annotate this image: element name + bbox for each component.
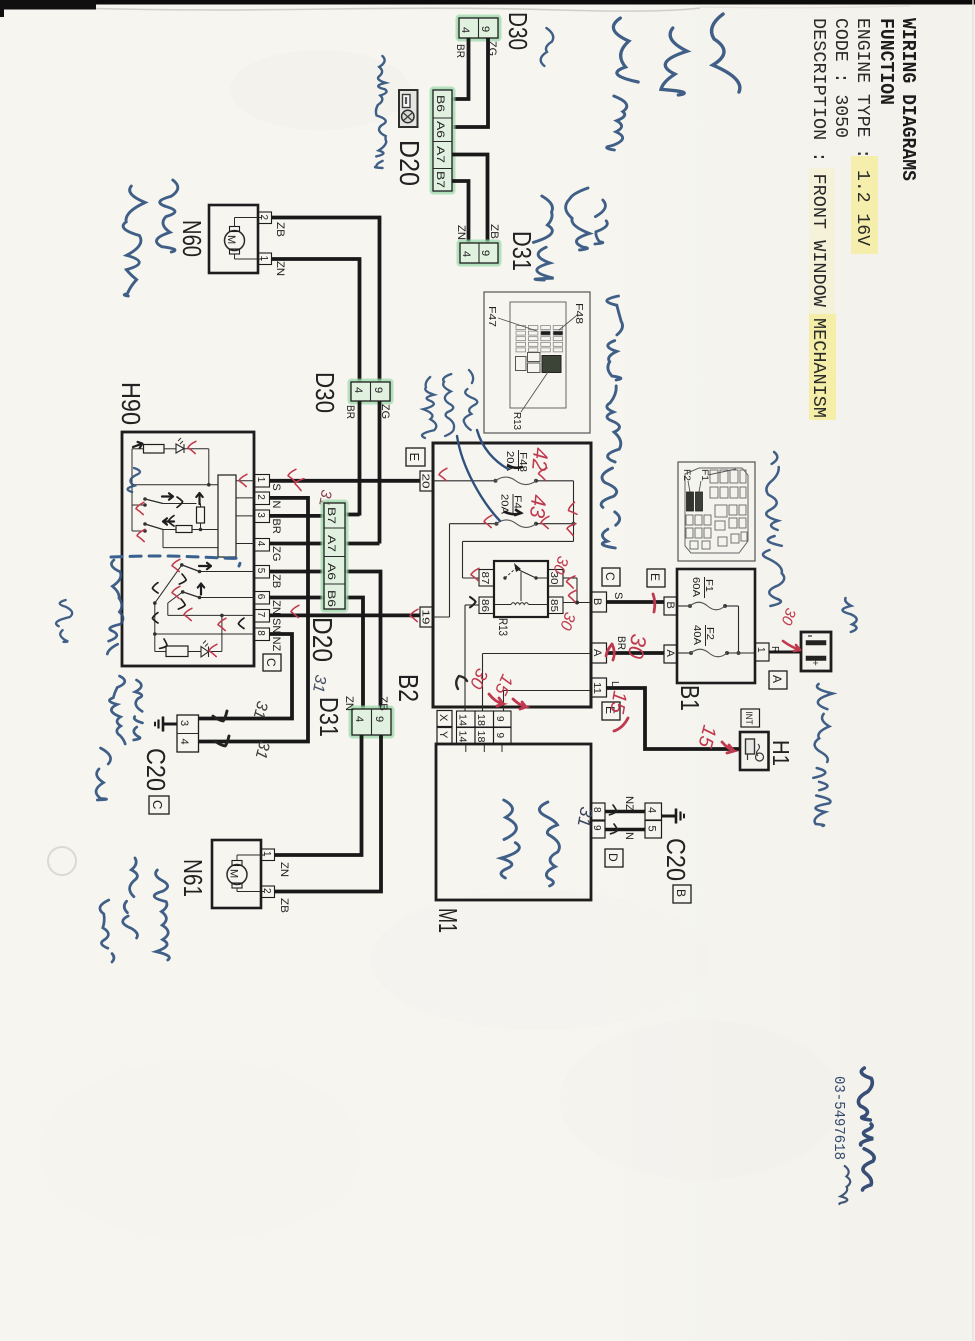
svg-text:BR: BR — [344, 405, 356, 419]
yellow highlight MECHANISM — [809, 314, 836, 420]
connector D30 (top) green highlight — [457, 16, 500, 40]
svg-text:40A: 40A — [691, 625, 702, 645]
A-row wire to X:18 — [483, 653, 592, 655]
svg-text:S: S — [612, 592, 624, 599]
svg-text:3: 3 — [178, 720, 190, 726]
svg-text:ZN: ZN — [274, 261, 286, 276]
stamp: name line — [858, 1068, 872, 1120]
H90 pin 7 cell — [255, 610, 270, 623]
86 wire down to X:14 — [465, 604, 479, 606]
connector D30 (mid) — [351, 382, 390, 401]
svg-text:C: C — [150, 800, 165, 809]
H90 hand-drawn black arrows — [132, 441, 144, 450]
connector code box B — [673, 885, 691, 903]
handwritten note: battery word — [842, 598, 856, 632]
svg-text:42: 42 — [527, 447, 552, 473]
svg-text:L: L — [609, 681, 620, 687]
svg-text:19: 19 — [420, 610, 431, 626]
wire ZN from D31:4 to N61:1 — [275, 735, 362, 855]
svg-text:FUNCTION: FUNCTION — [875, 18, 897, 105]
wire R to battery — [769, 651, 801, 654]
wire ZN: H90 pin6 through B6 down to D31 — [270, 596, 325, 600]
blue pointer strokes to fuses — [477, 430, 508, 469]
svg-text:NZ: NZ — [623, 796, 635, 811]
pin11 wire to X:9 — [504, 690, 592, 692]
H90 pin 2 cell — [255, 492, 270, 505]
B2 pin B cell — [591, 592, 607, 612]
red ticks on SN wire — [291, 605, 299, 617]
red tick near cell 20 — [439, 468, 447, 480]
svg-text:5: 5 — [255, 568, 266, 574]
svg-text:9: 9 — [494, 733, 505, 739]
H90 switch blade upper2 — [145, 524, 163, 530]
svg-text:18: 18 — [475, 731, 486, 743]
connector code box A — [769, 671, 787, 689]
connector D30 (top) — [459, 18, 498, 38]
svg-text:WIRING DIAGRAMS: WIRING DIAGRAMS — [897, 18, 919, 181]
black curve near B2 bottom-left — [456, 676, 467, 689]
wire ZG from D30:9 down to H90 pin4 junction — [378, 401, 382, 544]
svg-text:9: 9 — [372, 387, 384, 393]
svg-text:B: B — [674, 889, 688, 897]
handwritten note: fuse pointer words — [464, 370, 478, 430]
handwritten note: right of H1 — [815, 684, 833, 762]
F2 dark slot — [687, 492, 694, 511]
svg-text:2: 2 — [261, 888, 272, 894]
svg-text:E: E — [648, 573, 662, 581]
H90 horizontal resistor — [176, 526, 192, 533]
H90 pin 1 cell — [255, 475, 270, 488]
svg-text:B: B — [664, 602, 676, 609]
motor N60 box — [209, 205, 258, 273]
H90 switch blade upper1 — [145, 499, 163, 504]
wire SN: H90 pin7 to B2 pin19 — [270, 614, 421, 618]
svg-text:D30: D30 — [310, 372, 340, 413]
B2 pin 19 cell — [420, 607, 433, 627]
svg-text:D20: D20 — [394, 140, 425, 186]
connector D31 (mid) — [352, 709, 391, 735]
connector code box C (upper, near H90) — [263, 654, 281, 671]
relay R13 slot (dark) — [542, 356, 561, 373]
svg-text:85: 85 — [548, 599, 559, 613]
svg-text:A: A — [664, 650, 676, 658]
svg-text:+: + — [809, 660, 820, 666]
wire S: B2:B to B1:B — [607, 600, 665, 604]
svg-text:INT: INT — [744, 712, 754, 725]
wire ZB from D20:A7 to D31:9 — [452, 155, 488, 244]
connector strip D20 green highlight — [431, 88, 454, 193]
svg-text:1: 1 — [261, 851, 272, 857]
wire NZ: M1:8 to C20:4 — [605, 810, 645, 813]
handwritten note: above B1 — [766, 452, 779, 530]
F1 dark slot — [696, 492, 703, 511]
svg-text:4: 4 — [255, 541, 266, 547]
fuse F2 40A — [677, 652, 691, 654]
svg-text:H90: H90 — [116, 382, 146, 425]
svg-text:N60: N60 — [177, 220, 207, 257]
svg-text:ZB: ZB — [270, 574, 282, 588]
wire N: H90 pin2 down to C20 — [199, 498, 309, 742]
motor N61 box — [212, 840, 261, 908]
red ticks near fuses — [538, 467, 547, 480]
svg-text:4: 4 — [353, 716, 365, 722]
svg-text:F2: F2 — [704, 627, 715, 640]
svg-text:D30: D30 — [503, 12, 533, 50]
M1 pin 9 cell — [591, 821, 605, 838]
H90 pin 6 cell — [255, 592, 270, 605]
H90 bottom resistor — [166, 646, 188, 657]
B2/M1 connector row Y — [457, 728, 476, 744]
svg-text:2: 2 — [258, 215, 269, 221]
wire BR: H90 pin3 to D20 strip B7 — [270, 514, 325, 518]
blue scribble H90 top-left — [128, 468, 140, 492]
B1 pin B cell — [664, 597, 677, 615]
svg-text:ZB: ZB — [278, 898, 290, 913]
svg-text:M1: M1 — [433, 908, 463, 933]
svg-text:31: 31 — [309, 673, 329, 693]
svg-text:F48: F48 — [517, 452, 528, 473]
svg-text:4: 4 — [352, 387, 364, 393]
component H1 box — [740, 732, 769, 770]
svg-text:BR: BR — [270, 519, 282, 534]
wire BR: B2:A to B1:A — [607, 651, 665, 655]
wire ZG: H90 pin4 to D20 strip A7 — [270, 542, 325, 546]
H90 pin 3 cell — [255, 510, 270, 523]
B2 pin 20 cell — [420, 471, 433, 491]
B2 pin A cell — [591, 643, 607, 663]
svg-text:BR: BR — [454, 44, 466, 58]
svg-text:14: 14 — [457, 714, 468, 726]
svg-text:B: B — [591, 598, 603, 605]
red slash on S wire — [653, 594, 655, 612]
svg-text:ZB: ZB — [488, 224, 500, 239]
svg-text:87: 87 — [479, 572, 490, 586]
handwritten note: column right of pictogram — [607, 296, 623, 380]
svg-text:D31: D31 — [507, 231, 537, 271]
svg-text:5: 5 — [646, 826, 658, 832]
H90 lamp resistor — [144, 445, 165, 454]
H90 pin 8 cell — [255, 628, 270, 641]
connector code box E (pin11 wire) — [602, 702, 620, 720]
black arrow at relay 86 — [470, 597, 476, 607]
wire ZB from D31:9 to N61:2 — [275, 735, 382, 892]
H90 pin 4 cell — [255, 539, 270, 552]
stubs into M1 — [465, 744, 467, 753]
control unit B2 box — [433, 443, 591, 707]
svg-text:A: A — [591, 649, 603, 657]
motor symbol M in N60 — [225, 231, 245, 251]
B1 pin A cell — [664, 645, 677, 663]
svg-text:ZB: ZB — [274, 222, 286, 237]
H90 bottom LED — [201, 647, 209, 658]
N60 internal wiring — [234, 218, 236, 227]
svg-text:1: 1 — [755, 647, 766, 653]
svg-text:6: 6 — [255, 594, 266, 600]
svg-text:B2: B2 — [393, 674, 424, 702]
svg-text:NZ: NZ — [270, 637, 282, 652]
red tick at relay 87 — [471, 568, 479, 580]
svg-text:F47: F47 — [486, 306, 497, 328]
handwritten note: bottom left cluster — [107, 560, 123, 654]
F1 to F2 output link — [738, 606, 740, 653]
svg-text:A6: A6 — [325, 563, 337, 580]
fuse grid — [516, 326, 526, 330]
svg-text:4: 4 — [646, 807, 658, 813]
code box INT — [741, 709, 760, 727]
svg-text:9: 9 — [479, 26, 491, 32]
svg-text:D20: D20 — [307, 617, 338, 662]
svg-text:ZN: ZN — [343, 696, 355, 711]
N60 pin 2 cell — [258, 212, 272, 224]
control unit M1 box — [436, 744, 591, 900]
connector C20/B cells — [645, 803, 662, 820]
svg-text:B7: B7 — [325, 507, 337, 524]
svg-text:C20: C20 — [661, 838, 691, 881]
svg-text:11: 11 — [591, 682, 602, 694]
F48 output to junction — [536, 480, 574, 482]
paper top edge shadow — [96, 8, 700, 11]
svg-text:DESCRIPTION : FRONT WINDOW MEC: DESCRIPTION : FRONT WINDOW MECHANISM — [808, 18, 828, 418]
wire ZB: H90 pin5 through A6 down to D31 — [270, 570, 325, 574]
connector strip D20 (mid) green highlight — [322, 501, 347, 611]
svg-text:30: 30 — [548, 572, 559, 586]
svg-text:N61: N61 — [178, 859, 208, 897]
wire BR from D30:4 down to H90 pin3 junction — [358, 401, 362, 516]
H90 pin 5 cell — [255, 566, 270, 579]
H90 internal wires (upper) — [132, 448, 144, 450]
svg-text:9: 9 — [494, 716, 505, 722]
svg-text:86: 86 — [479, 599, 490, 613]
yellow highlight 1.2 16V — [851, 156, 878, 254]
svg-text:B6: B6 — [325, 590, 337, 607]
svg-text:E: E — [407, 453, 422, 462]
connector code box E (near pin20) — [406, 448, 425, 466]
svg-text:CODE : 3050: CODE : 3050 — [830, 18, 850, 138]
svg-text:F4: F4 — [512, 495, 523, 510]
connector code box D — [605, 849, 623, 867]
H90 strip to pin stubs — [236, 480, 255, 482]
connector code box E (A wire) — [647, 569, 665, 587]
relay coil — [494, 604, 511, 606]
window-switch pictogram icon — [399, 90, 418, 127]
svg-text:1: 1 — [258, 256, 269, 262]
svg-text:20: 20 — [420, 474, 431, 490]
svg-text:ZN: ZN — [270, 600, 282, 615]
svg-text:ZG: ZG — [486, 41, 498, 56]
handwritten note: near N60 — [156, 180, 177, 252]
svg-text:A: A — [770, 675, 784, 683]
svg-text:9: 9 — [479, 250, 491, 256]
svg-text:9: 9 — [373, 716, 385, 722]
svg-text:4: 4 — [178, 739, 190, 745]
svg-text:8: 8 — [255, 630, 266, 636]
fuse unit B1 box — [677, 569, 755, 683]
blue dashed split line in H90 — [111, 556, 240, 566]
svg-text:H1: H1 — [768, 740, 794, 766]
svg-text:SN: SN — [270, 618, 282, 633]
connector C20/C cells — [177, 715, 199, 752]
wire NZ: H90 pin8 down to C20 — [199, 634, 293, 719]
N61 pin 1 cell — [261, 849, 275, 861]
svg-text:S: S — [270, 483, 282, 490]
svg-text:43: 43 — [525, 494, 550, 520]
svg-text:7: 7 — [255, 612, 266, 618]
svg-text:R13: R13 — [496, 618, 510, 636]
wire BR from D30:4 to D20:B6 — [452, 38, 469, 99]
relay terminal 86 — [479, 597, 494, 614]
scanner edge black bar top — [0, 0, 975, 5]
N61 pin 2 cell — [261, 886, 275, 898]
relay terminal 30 — [548, 570, 563, 587]
svg-text:B6: B6 — [434, 95, 446, 112]
red ticks on S wire — [288, 469, 296, 481]
wire N: M1:9 to C20:5 — [605, 828, 645, 831]
connector code box C (B wire) — [602, 568, 620, 586]
svg-text:3: 3 — [255, 512, 266, 518]
connector code box Y — [437, 728, 452, 744]
svg-text:M: M — [228, 869, 240, 878]
connector D30 (mid) green highlight — [349, 380, 392, 403]
M1 pin 8 cell — [591, 803, 605, 820]
junction to relay 87 — [573, 524, 575, 542]
svg-text:C: C — [264, 658, 278, 667]
svg-text:60A: 60A — [690, 577, 701, 597]
handwritten note: right of D30 top — [541, 28, 554, 66]
svg-text:30: 30 — [623, 632, 652, 661]
svg-text:B1: B1 — [675, 685, 705, 711]
handwritten note: near D31 top — [566, 188, 590, 250]
H90 indicator LED — [176, 444, 184, 453]
svg-text:B7: B7 — [434, 171, 446, 188]
svg-text:C20: C20 — [141, 748, 171, 791]
fusebox pictogram (dashboard) — [484, 292, 590, 433]
connector code box X — [437, 711, 452, 727]
ground at C20/B — [662, 815, 677, 818]
N60 pin 1 cell — [258, 253, 272, 265]
relay 30 wiring to B cell — [563, 577, 577, 579]
svg-text:ZN: ZN — [278, 862, 290, 877]
F4 left to pin19 — [449, 524, 451, 617]
svg-text:2: 2 — [255, 494, 266, 500]
svg-text:M: M — [225, 235, 237, 244]
connector D31 (top) — [460, 243, 498, 263]
motor symbol M in N61 — [227, 865, 247, 885]
B2 internal: pin20 to fuse F48 — [433, 480, 496, 482]
fuse F4 20A — [450, 523, 497, 525]
connector strip D20 — [433, 90, 452, 191]
B1 pin R cell — [755, 643, 769, 661]
red arrow on BR wire — [606, 644, 614, 660]
fuse F1 60A — [677, 605, 690, 607]
blue note inside M1 — [539, 802, 559, 886]
svg-text:F48: F48 — [573, 303, 584, 325]
svg-text:F2: F2 — [681, 469, 692, 481]
svg-text:4: 4 — [459, 27, 471, 33]
wire ZG from D30:9 to D20:A6 — [452, 38, 488, 127]
svg-text:4: 4 — [460, 251, 472, 257]
relay slots — [516, 357, 527, 371]
connector code box C — [149, 796, 169, 814]
svg-text:14: 14 — [457, 731, 468, 743]
svg-text:A7: A7 — [325, 535, 337, 552]
H90 vertical resistor — [197, 507, 205, 523]
wire ZN from N60:1 to D30 — [272, 259, 360, 382]
svg-text:31: 31 — [574, 805, 597, 828]
yellow highlight FRONT WINDOW (light) — [809, 168, 835, 314]
relay terminal 85 — [548, 597, 563, 614]
svg-text:A7: A7 — [434, 146, 446, 163]
connector strip D20 (mid) — [324, 503, 345, 609]
switch unit H90 box — [122, 432, 254, 666]
svg-text:18: 18 — [475, 714, 486, 726]
wire ZB from N60:2 to D30 — [272, 218, 380, 383]
svg-text:N: N — [270, 501, 282, 509]
relay contact blade — [503, 576, 506, 579]
battery — [801, 632, 831, 671]
relay R13 box — [494, 561, 548, 617]
H90 red ticks — [188, 441, 196, 453]
svg-text:X: X — [437, 714, 449, 722]
svg-text:D: D — [606, 853, 620, 862]
svg-text:R13: R13 — [511, 412, 522, 430]
wire 15: B2:11 to H1 — [607, 688, 741, 749]
handwritten note: left of D20 top — [375, 56, 387, 168]
ground at C20 pin3 — [163, 723, 177, 726]
fusebox pictogram (engine bay) — [678, 462, 755, 561]
svg-text:1: 1 — [255, 477, 266, 483]
relay terminal 87 — [479, 570, 494, 587]
svg-text:N: N — [623, 832, 635, 840]
svg-text:Y: Y — [437, 731, 449, 739]
svg-text:ZG: ZG — [270, 546, 282, 561]
wire ZN from D20:B7 to D31:4 — [452, 181, 469, 243]
svg-text:A6: A6 — [434, 121, 446, 138]
wire S: H90 pin1 to B2 pin20 — [270, 479, 421, 483]
svg-text:ENGINE TYPE : 1.2 16V: ENGINE TYPE : 1.2 16V — [852, 18, 872, 246]
H90 lower section wires — [182, 565, 200, 572]
connector D31 (mid) green highlight — [350, 707, 393, 737]
fuse F48 20A — [494, 479, 498, 483]
svg-text:03-5497618: 03-5497618 — [830, 1076, 846, 1160]
svg-text:ZB: ZB — [377, 696, 389, 711]
svg-text:ZN: ZN — [455, 225, 467, 240]
connector D31 (top) green highlight — [458, 241, 500, 265]
svg-text:C: C — [603, 572, 617, 581]
paper tone blotches — [230, 50, 410, 130]
B2 pin 11 cell — [591, 678, 607, 697]
svg-text:D31: D31 — [314, 697, 344, 737]
B2 bottom connector row X — [457, 711, 476, 727]
handwritten note: top right phrase — [712, 14, 740, 92]
H1 icon — [746, 739, 755, 754]
handwritten note: under N61 — [123, 858, 138, 938]
punch hole — [48, 847, 76, 875]
svg-text:F1: F1 — [703, 579, 714, 592]
H90 inner connector strip — [218, 475, 236, 557]
